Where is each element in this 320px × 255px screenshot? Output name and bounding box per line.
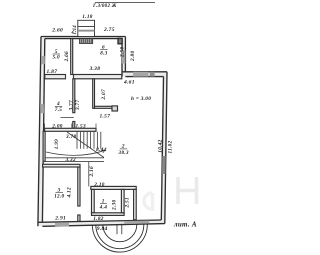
- svg-text:1.87: 1.87: [47, 69, 58, 75]
- svg-text:38.3: 38.3: [117, 150, 128, 156]
- svg-text:2.91: 2.91: [54, 215, 66, 221]
- svg-text:2.07: 2.07: [101, 89, 107, 100]
- svg-text:2.75: 2.75: [103, 27, 115, 33]
- svg-text:4.4: 4.4: [99, 204, 108, 210]
- svg-text:2.50: 2.50: [119, 47, 125, 58]
- svg-text:9.04: 9.04: [97, 226, 108, 232]
- svg-text:4.61: 4.61: [123, 79, 135, 85]
- svg-text:2.16: 2.16: [89, 166, 95, 177]
- svg-text:4.12: 4.12: [67, 187, 73, 198]
- svg-text:2.30: 2.30: [112, 200, 118, 211]
- svg-text:3.78: 3.78: [65, 134, 76, 140]
- svg-text:3.32: 3.32: [65, 157, 76, 163]
- svg-text:1.14: 1.14: [73, 25, 78, 35]
- svg-text:1.18: 1.18: [82, 14, 92, 20]
- svg-text:1.53: 1.53: [76, 124, 86, 130]
- svg-text:2.10: 2.10: [93, 182, 104, 188]
- svg-text:7.5: 7.5: [55, 107, 63, 113]
- svg-text:2.00: 2.00: [51, 124, 62, 130]
- svg-text:8.44: 8.44: [96, 147, 107, 153]
- svg-text:2.80: 2.80: [130, 51, 136, 62]
- svg-text:1.99: 1.99: [54, 139, 60, 149]
- svg-text:2.60: 2.60: [51, 28, 63, 34]
- svg-text:1.57: 1.57: [100, 114, 111, 120]
- svg-text:5.0: 5.0: [52, 54, 60, 60]
- svg-text:3.77: 3.77: [68, 100, 74, 111]
- svg-text:2.51: 2.51: [125, 197, 131, 208]
- svg-text:10.42: 10.42: [157, 139, 163, 152]
- svg-text:12.0: 12.0: [54, 193, 64, 199]
- svg-text:3.77: 3.77: [75, 100, 81, 111]
- svg-text:1.82: 1.82: [93, 216, 103, 222]
- svg-text:3.38: 3.38: [89, 66, 101, 72]
- svg-text:лит. А: лит. А: [173, 221, 197, 229]
- svg-text:2.66: 2.66: [64, 51, 70, 62]
- svg-text:h = 3.00: h = 3.00: [131, 96, 151, 102]
- svg-text:11.02: 11.02: [167, 140, 173, 153]
- svg-text:Г.3/002 Ж: Г.3/002 Ж: [92, 4, 117, 9]
- svg-text:8.3: 8.3: [100, 50, 108, 56]
